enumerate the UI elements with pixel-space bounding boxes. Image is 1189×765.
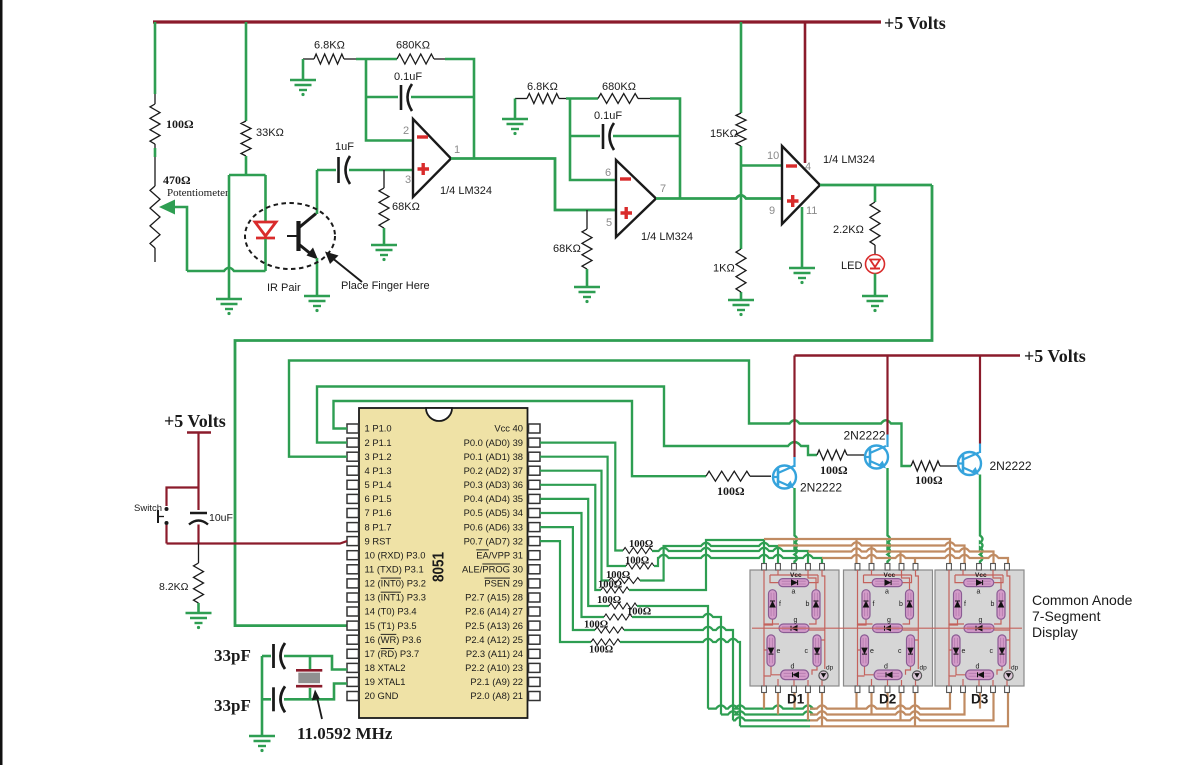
svg-text:33KΩ: 33KΩ bbox=[256, 127, 284, 139]
svg-text:0.1uF: 0.1uF bbox=[594, 110, 622, 122]
op-amp U3 (1/4 LM324) bbox=[782, 146, 820, 224]
ground (33pF) bbox=[249, 736, 275, 752]
svg-text:EA/VPP 31: EA/VPP 31 bbox=[476, 549, 523, 560]
svg-text:1/4 LM324: 1/4 LM324 bbox=[641, 231, 693, 243]
ground (68K stage1) bbox=[371, 245, 397, 261]
resistor 1Kohm bbox=[736, 249, 746, 292]
wire R7 to bottom bus BL3 bbox=[624, 627, 733, 721]
svg-text:2N2222: 2N2222 bbox=[800, 481, 842, 495]
svg-text:P2.6 (A14) 27: P2.6 (A14) 27 bbox=[465, 606, 523, 617]
svg-text:P2.2 (A10) 23: P2.2 (A10) 23 bbox=[465, 662, 523, 673]
svg-text:100Ω: 100Ω bbox=[915, 473, 943, 487]
resistor 68Kohm (stage1) bbox=[383, 170, 385, 188]
wire R5 to bottom bus BL1 bbox=[637, 606, 708, 709]
svg-text:33pF: 33pF bbox=[214, 646, 251, 665]
svg-text:2N2222: 2N2222 bbox=[990, 459, 1032, 473]
node RST supply bbox=[187, 431, 211, 433]
ground (U3) bbox=[789, 268, 815, 284]
wire node to ground bbox=[228, 175, 231, 299]
feedback wires stage1 bbox=[366, 59, 413, 141]
transistor Q3 2N2222 bbox=[958, 452, 981, 475]
svg-text:680KΩ: 680KΩ bbox=[602, 81, 636, 93]
svg-text:6: 6 bbox=[605, 167, 611, 179]
wire 33pF bottom to XTAL1 pin19 bbox=[284, 684, 347, 700]
capacitor 0.1uF (stage1) bbox=[366, 96, 398, 99]
8051 microcontroller body bbox=[359, 408, 528, 718]
+5V power rail (top) bbox=[153, 20, 881, 23]
+5V drop to Q1 collector bbox=[793, 356, 795, 458]
svg-text:14 (T0) P3.4: 14 (T0) P3.4 bbox=[365, 606, 417, 617]
potentiometer 470ohm bbox=[154, 157, 156, 262]
svg-text:P0.1 (AD1) 38: P0.1 (AD1) 38 bbox=[464, 451, 523, 462]
wire pin3 P1.2 to Q3 base bbox=[289, 361, 911, 467]
svg-text:15 (T1) P3.5: 15 (T1) P3.5 bbox=[365, 620, 417, 631]
phototransistor (IR pair) bbox=[287, 214, 316, 257]
svg-text:19 XTAL1: 19 XTAL1 bbox=[365, 676, 406, 687]
svg-text:Switch: Switch bbox=[134, 503, 162, 514]
svg-text:Vcc 40: Vcc 40 bbox=[494, 423, 523, 434]
wire U3 output bbox=[820, 184, 932, 187]
svg-text:6.8KΩ: 6.8KΩ bbox=[527, 81, 558, 93]
8051 pin labels right bbox=[462, 423, 523, 702]
svg-text:6.8KΩ: 6.8KΩ bbox=[314, 40, 345, 52]
svg-text:10uF: 10uF bbox=[209, 512, 233, 524]
svg-text:P2.4 (A12) 25: P2.4 (A12) 25 bbox=[465, 634, 523, 645]
7-segment display D2 bbox=[844, 564, 933, 693]
capacitor 33pF (bottom) bbox=[262, 698, 271, 701]
svg-text:P2.1 (A9) 22: P2.1 (A9) 22 bbox=[470, 676, 523, 687]
resistor 100ohm (segment R8) bbox=[591, 639, 620, 645]
wire P0.4 pin35 to 100ohm R5 bbox=[540, 499, 609, 606]
svg-text:100Ω: 100Ω bbox=[627, 607, 651, 618]
segment bus bottom BL1 (salmon) bbox=[810, 692, 950, 709]
LED indicator bbox=[866, 255, 885, 274]
wire R4 to top bus L1 bbox=[629, 540, 764, 590]
svg-text:ALE/PROG 30: ALE/PROG 30 bbox=[462, 564, 523, 575]
svg-text:100Ω: 100Ω bbox=[820, 463, 848, 477]
svg-text:68KΩ: 68KΩ bbox=[553, 243, 581, 255]
svg-text:100Ω: 100Ω bbox=[166, 117, 194, 131]
capacitor 10uF bbox=[190, 512, 207, 514]
potentiometer wiper arrow bbox=[174, 207, 187, 271]
wire Q3 emitter to D3 Vcc bbox=[980, 475, 983, 565]
svg-text:1: 1 bbox=[454, 144, 460, 156]
svg-text:IR Pair: IR Pair bbox=[267, 282, 301, 294]
ground (phototransistor) bbox=[304, 296, 330, 312]
op-amp U1 (1/4 LM324) bbox=[413, 119, 451, 197]
svg-text:9: 9 bbox=[769, 205, 775, 217]
wire R1 to top bus L3 bbox=[652, 548, 808, 564]
segment bus bottom BL2 (green) bbox=[721, 711, 813, 714]
wire P0.0 pin39 to 100ohm R1 bbox=[540, 443, 623, 551]
segment bus bottom BL4 (salmon) bbox=[810, 692, 1008, 726]
svg-text:5 P1.4: 5 P1.4 bbox=[365, 479, 392, 490]
capacitor 33pF (top) bbox=[262, 655, 271, 658]
svg-text:1/4 LM324: 1/4 LM324 bbox=[823, 154, 875, 166]
svg-text:4 P1.3: 4 P1.3 bbox=[365, 465, 392, 476]
svg-text:+5 Volts: +5 Volts bbox=[884, 13, 946, 33]
svg-text:18 XTAL2: 18 XTAL2 bbox=[365, 662, 406, 673]
wire phototransistor emitter to ground bbox=[316, 258, 319, 296]
svg-text:7: 7 bbox=[660, 183, 666, 195]
segment bus bottom BL1 (green) bbox=[708, 705, 813, 708]
wire R3 to top bus L2 bbox=[640, 543, 778, 581]
wire reset node to pin9 RST bbox=[167, 541, 348, 543]
+5V power rail (display) bbox=[795, 354, 1021, 357]
8051 right pins 40-21 bbox=[529, 424, 541, 701]
wire U2 out to U3 pin9 (hop) bbox=[656, 195, 782, 198]
svg-text:33pF: 33pF bbox=[214, 696, 251, 715]
wire 33K to IR pair node bbox=[229, 156, 266, 175]
resistor 2.2Kohm bbox=[874, 185, 877, 202]
switch (reset) bbox=[167, 488, 199, 507]
svg-text:3: 3 bbox=[405, 174, 411, 186]
segment g interconnect trace bbox=[752, 627, 1022, 629]
svg-text:P0.0 (AD0) 39: P0.0 (AD0) 39 bbox=[464, 437, 523, 448]
svg-text:1 P1.0: 1 P1.0 bbox=[365, 423, 392, 434]
wire P0.7 pin32 to 100ohm R8 bbox=[540, 541, 591, 642]
svg-text:LED: LED bbox=[841, 260, 862, 272]
svg-text:P0.7 (AD7) 32: P0.7 (AD7) 32 bbox=[464, 535, 523, 546]
svg-text:Place Finger Here: Place Finger Here bbox=[341, 280, 430, 292]
resistor 680Kohm (stage2) bbox=[566, 97, 598, 100]
resistor 100ohm (segment R1) bbox=[623, 548, 652, 554]
resistor 100ohm (segment R3) bbox=[609, 578, 640, 584]
feedback wires stage2 bbox=[570, 99, 616, 181]
svg-text:7 P1.6: 7 P1.6 bbox=[365, 507, 392, 518]
wire R8 to bottom bus BL4 bbox=[620, 639, 740, 727]
svg-text:1/4 LM324: 1/4 LM324 bbox=[440, 185, 492, 197]
resistor 100ohm (Q2 base) bbox=[817, 450, 847, 460]
crystal 11.0592 MHz bbox=[309, 656, 312, 699]
svg-text:D2: D2 bbox=[879, 692, 896, 707]
svg-text:2.2KΩ: 2.2KΩ bbox=[833, 224, 864, 236]
wire pot wiper to IR LED cathode (hop over gnd wire) bbox=[187, 268, 266, 271]
svg-text:11 (TXD) P3.1: 11 (TXD) P3.1 bbox=[365, 564, 424, 575]
7-segment display D1 bbox=[750, 564, 839, 693]
ground (1K) bbox=[728, 300, 754, 316]
wire + ground (6.8K stage1) bbox=[302, 59, 305, 80]
wire P0.1 pin38 to 100ohm R2 bbox=[540, 457, 626, 566]
wire divider to U3 pin10 bbox=[741, 164, 782, 167]
ground (LED) bbox=[862, 296, 888, 312]
resistor 100ohm (segment R2) bbox=[626, 563, 654, 569]
svg-text:Potentiometer: Potentiometer bbox=[167, 187, 229, 199]
bus risers D1 bottom pins bbox=[764, 692, 822, 726]
wire U1 out to U2 in bbox=[451, 159, 616, 211]
wire U3 output loop to 8051 pin15 bbox=[235, 185, 932, 626]
svg-text:8.2KΩ: 8.2KΩ bbox=[159, 581, 189, 593]
resistor 100ohm (segment R5) bbox=[609, 603, 637, 609]
svg-text:P2.7 (A15) 28: P2.7 (A15) 28 bbox=[465, 592, 523, 603]
wire P0.5 pin34 to 100ohm R6 bbox=[540, 513, 604, 617]
segment bus top S2 bbox=[778, 542, 965, 564]
svg-text:470Ω: 470Ω bbox=[163, 173, 191, 187]
svg-text:PSEN 29: PSEN 29 bbox=[484, 578, 523, 589]
resistor 100ohm (top left) bbox=[154, 94, 156, 148]
svg-text:P0.5 (AD5) 34: P0.5 (AD5) 34 bbox=[464, 507, 523, 518]
resistor 33Kohm bbox=[241, 121, 251, 156]
svg-text:20 GND: 20 GND bbox=[365, 690, 399, 701]
transistor Q2 2N2222 bbox=[865, 446, 888, 469]
wire rail to 100ohm bbox=[154, 22, 157, 157]
wire R6 to bottom bus BL2 bbox=[632, 614, 721, 715]
svg-text:2 P1.1: 2 P1.1 bbox=[365, 437, 392, 448]
resistor 6.8Kohm (stage1) bbox=[303, 58, 314, 60]
capacitor 0.1uF (stage2) bbox=[570, 135, 600, 138]
svg-text:11.0592 MHz: 11.0592 MHz bbox=[297, 724, 393, 743]
svg-text:12 (INT0) P3.2: 12 (INT0) P3.2 bbox=[365, 578, 427, 589]
wire R2 to top bus L4 bbox=[654, 555, 822, 566]
svg-text:100Ω: 100Ω bbox=[589, 645, 613, 656]
wire P0.6 pin33 to 100ohm R7 bbox=[540, 527, 595, 630]
svg-text:15KΩ: 15KΩ bbox=[710, 128, 738, 140]
svg-text:P2.5 (A13) 26: P2.5 (A13) 26 bbox=[465, 620, 523, 631]
resistor 100ohm (Q1 base) bbox=[706, 471, 750, 481]
svg-text:2N2222: 2N2222 bbox=[844, 429, 886, 443]
svg-text:100Ω: 100Ω bbox=[584, 620, 608, 631]
wire pin1 P1.0 to Q1 base bbox=[334, 401, 707, 476]
svg-text:P0.3 (AD3) 36: P0.3 (AD3) 36 bbox=[464, 479, 523, 490]
svg-text:13 (INT1) P3.3: 13 (INT1) P3.3 bbox=[365, 592, 427, 603]
svg-text:17 (RD) P3.7: 17 (RD) P3.7 bbox=[365, 648, 420, 659]
8051 pin labels left bbox=[365, 423, 427, 702]
svg-text:8051: 8051 bbox=[431, 552, 448, 582]
svg-text:68KΩ: 68KΩ bbox=[392, 201, 420, 213]
resistor 100ohm (segment R4) bbox=[601, 587, 629, 593]
resistor 6.8Kohm (stage2) bbox=[515, 98, 527, 100]
op-amp U2 (1/4 LM324) bbox=[616, 160, 656, 237]
svg-text:Display: Display bbox=[1032, 624, 1078, 640]
svg-text:P0.6 (AD6) 33: P0.6 (AD6) 33 bbox=[464, 521, 523, 532]
crystal label + arrow bbox=[317, 695, 323, 719]
svg-text:11: 11 bbox=[806, 205, 817, 217]
segment bus bottom BL2 (salmon) bbox=[810, 692, 965, 715]
8051 left pins 1-20 bbox=[347, 424, 359, 701]
resistor 8.2Kohm bbox=[198, 544, 200, 564]
svg-text:2: 2 bbox=[403, 125, 409, 137]
svg-text:D3: D3 bbox=[971, 692, 989, 707]
wire caps common to ground bbox=[261, 656, 264, 736]
segment bus top S4 bbox=[822, 555, 1008, 564]
segment bus bottom BL4 (green) bbox=[740, 725, 810, 727]
wire phototransistor collector up to 1uF node bbox=[316, 170, 319, 214]
ground (8.2K) bbox=[186, 613, 212, 629]
wire rail to 33K bbox=[245, 22, 248, 121]
svg-text:9 RST: 9 RST bbox=[365, 535, 392, 546]
segment bus top S3 bbox=[808, 548, 994, 564]
svg-text:P2.3 (A11) 24: P2.3 (A11) 24 bbox=[466, 648, 523, 659]
wire Q1 emitter to D1 Vcc bbox=[795, 488, 798, 564]
wire 33pF top to XTAL2 pin18 bbox=[284, 656, 347, 670]
svg-text:7-Segment: 7-Segment bbox=[1032, 608, 1101, 624]
bus riser D3 center pin bbox=[979, 692, 981, 709]
svg-text:5: 5 bbox=[606, 217, 612, 229]
resistor 100ohm (segment R6) bbox=[604, 614, 632, 620]
wire pin2 P1.1 to Q2 base bbox=[317, 387, 817, 456]
IR LED (red) bbox=[264, 175, 267, 221]
svg-text:3 P1.2: 3 P1.2 bbox=[365, 451, 392, 462]
svg-text:16 (WR) P3.6: 16 (WR) P3.6 bbox=[365, 634, 422, 645]
svg-text:100Ω: 100Ω bbox=[625, 556, 649, 567]
resistor 15Kohm bbox=[736, 113, 746, 146]
svg-text:0.1uF: 0.1uF bbox=[394, 71, 422, 83]
capacitor 1uF bbox=[317, 169, 336, 172]
svg-text:P0.2 (AD2) 37: P0.2 (AD2) 37 bbox=[464, 465, 523, 476]
+5V drop to Q3 collector bbox=[979, 356, 981, 444]
wire P0.2 pin37 to 100ohm R3 bbox=[540, 471, 609, 581]
wire Q2 emitter to D2 Vcc bbox=[888, 468, 891, 564]
svg-text:100Ω: 100Ω bbox=[598, 580, 622, 591]
7-segment display D3 bbox=[935, 564, 1024, 693]
svg-text:100Ω: 100Ω bbox=[629, 539, 653, 550]
svg-text:8 P1.7: 8 P1.7 bbox=[365, 521, 392, 532]
resistor 100ohm (segment R7) bbox=[595, 627, 624, 633]
segment bus bottom BL3 (green) bbox=[733, 717, 810, 720]
IR pair dashed ellipse bbox=[245, 203, 335, 269]
border left edge bbox=[0, 0, 3, 765]
svg-text:100Ω: 100Ω bbox=[717, 484, 745, 498]
bus risers D2 bottom pins bbox=[857, 692, 916, 726]
resistor 68Kohm (stage2) bbox=[586, 210, 588, 229]
wire + ground (6.8K stage2) bbox=[514, 99, 517, 120]
svg-text:+5 Volts: +5 Volts bbox=[1024, 346, 1086, 366]
svg-text:1KΩ: 1KΩ bbox=[713, 263, 735, 275]
svg-text:P2.0 (A8) 21: P2.0 (A8) 21 bbox=[470, 690, 523, 701]
svg-text:P0.4 (AD4) 35: P0.4 (AD4) 35 bbox=[464, 493, 523, 504]
svg-text:1uF: 1uF bbox=[335, 141, 354, 153]
svg-text:6 P1.5: 6 P1.5 bbox=[365, 493, 392, 504]
wire U3 pin11 to ground bbox=[801, 207, 804, 268]
ground (IR node) bbox=[216, 299, 242, 315]
+5V drop to U3 pin4 bbox=[804, 22, 807, 163]
svg-text:4: 4 bbox=[805, 161, 811, 173]
svg-text:680KΩ: 680KΩ bbox=[396, 40, 430, 52]
Common Anode 7-Segment Display note bbox=[1032, 592, 1133, 640]
wire P0.3 pin36 to 100ohm R4 bbox=[540, 485, 601, 590]
svg-text:Common Anode: Common Anode bbox=[1032, 592, 1133, 608]
svg-text:+5 Volts: +5 Volts bbox=[164, 411, 226, 431]
+5V drop to Q2 collector bbox=[886, 356, 888, 435]
svg-text:10: 10 bbox=[767, 150, 779, 162]
resistor 680Kohm (stage1) bbox=[356, 58, 397, 61]
segment bus bottom BL3 (salmon) bbox=[810, 692, 994, 720]
wire 1uF to op-amp pin3 bbox=[349, 169, 413, 172]
ground (68K stage2) bbox=[574, 287, 600, 303]
svg-text:100Ω: 100Ω bbox=[597, 595, 621, 606]
resistor 100ohm (Q3 base) bbox=[911, 461, 940, 471]
transistor Q1 2N2222 bbox=[773, 466, 796, 489]
segment bus top S1 bbox=[764, 539, 950, 564]
wire rail to 15K/1K divider bbox=[740, 22, 743, 300]
svg-text:D1: D1 bbox=[787, 692, 805, 707]
svg-text:10 (RXD) P3.0: 10 (RXD) P3.0 bbox=[365, 549, 426, 560]
bus drops D2 top pins bbox=[857, 539, 916, 564]
